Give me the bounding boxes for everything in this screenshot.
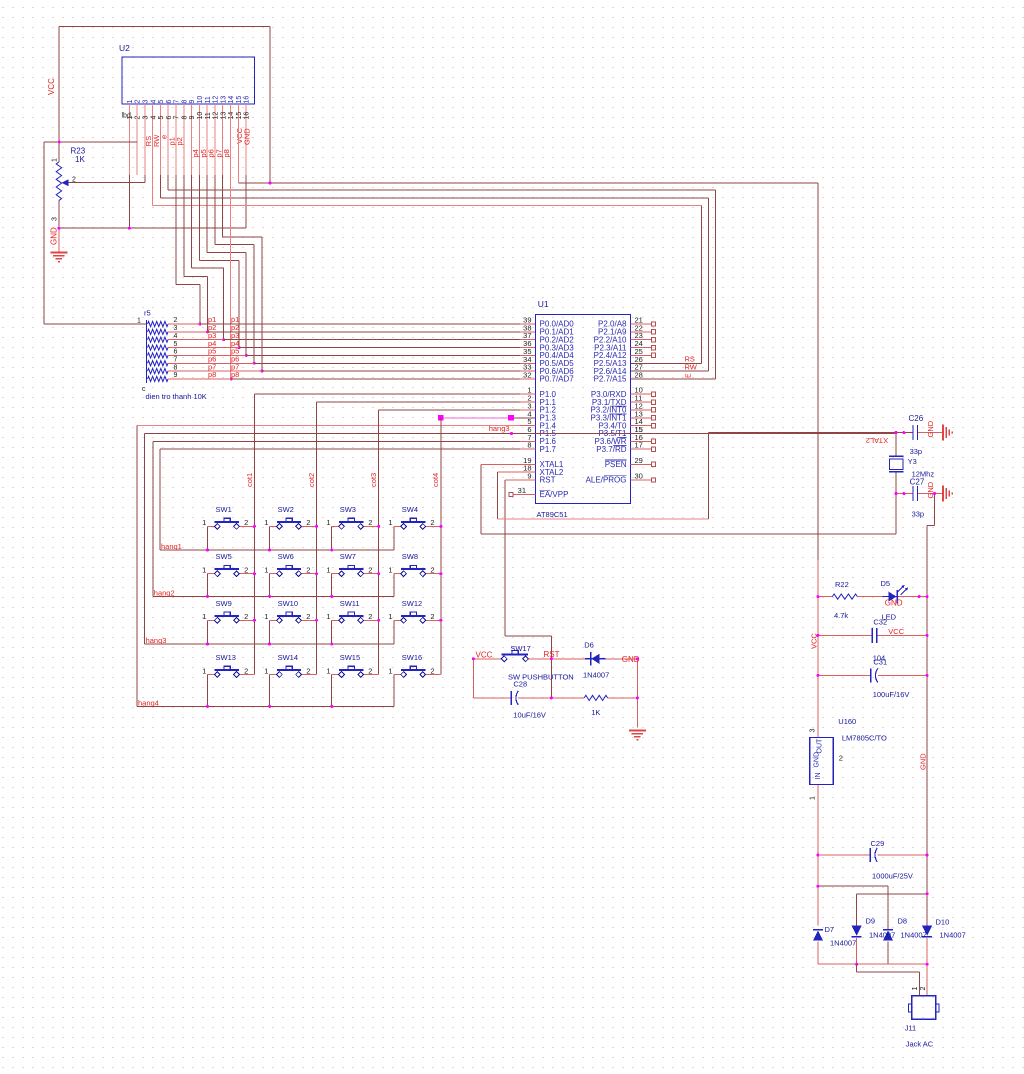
svg-text:2: 2 (368, 666, 372, 675)
wire rail U160 pin1 down to D7 (817, 784, 819, 925)
svg-text:E: E (686, 373, 693, 378)
r5 resistor element row 6 (148, 361, 169, 366)
wire r5 row 6 to U1 P0.5 (254, 362, 520, 364)
wire p7 vertical from U2 pin13 (222, 175, 224, 237)
wire SW16 pin1 drop (393, 675, 395, 707)
junction GND/1K row (636, 696, 639, 699)
wire D5 to GND rail (899, 596, 927, 598)
svg-text:2: 2 (135, 116, 142, 120)
resistor 1K (reset) (584, 695, 607, 700)
svg-text:r5: r5 (144, 309, 151, 318)
svg-text:2: 2 (430, 666, 434, 675)
wire RS vertical from U2 pin4 (152, 175, 154, 206)
wire hang2 row (153, 595, 394, 597)
wire SW15 pin1 drop (331, 675, 333, 707)
wire hang4 vertical (136, 426, 138, 707)
svg-text:SW7: SW7 (340, 552, 356, 561)
svg-text:6: 6 (174, 349, 178, 356)
svg-text:2: 2 (244, 566, 248, 575)
svg-text:P3.7/RD: P3.7/RD (596, 445, 626, 454)
wire GND jog (927, 525, 934, 527)
svg-text:GND: GND (885, 599, 903, 608)
junction p4 on r5 row (238, 346, 241, 349)
wire r5 row 3 to U1 P0.2 (224, 339, 520, 341)
junction VCC/C31 (816, 674, 819, 677)
wire RS into U1 (631, 362, 702, 364)
pushbutton SW17 (501, 656, 507, 662)
switch SW6 (264, 552, 316, 576)
wire p5 drop to r5 row (245, 253, 247, 356)
svg-text:lbd: lbd (122, 113, 131, 120)
svg-text:p8: p8 (208, 370, 216, 379)
svg-text:8: 8 (181, 116, 188, 120)
wire VCC left vertical (58, 27, 60, 163)
wire SW8 pin1 drop (393, 574, 395, 597)
junction cot4 row3 (439, 619, 442, 622)
svg-text:1: 1 (202, 666, 206, 675)
wire p4 step horizontal (199, 259, 239, 261)
svg-text:11: 11 (205, 112, 212, 119)
wire VCC top horizontal (59, 26, 270, 28)
wire XTAL2 vertical (497, 472, 499, 519)
U2 pin 12 stub and numbers (214, 104, 216, 175)
wire U1 P0.2 pin stub (520, 339, 536, 341)
svg-text:100uF/16V: 100uF/16V (873, 690, 910, 699)
junction crystal top 1 (895, 431, 898, 434)
svg-text:SW2: SW2 (278, 505, 294, 514)
wire P1.0 to cot1 (254, 393, 520, 395)
svg-text:R22: R22 (835, 580, 849, 589)
svg-text:33p: 33p (912, 510, 925, 519)
wire SW5 pin1 drop (207, 574, 209, 597)
wire XTAL1 stub (481, 463, 536, 465)
wire P1.3 segment to U1 (511, 417, 536, 419)
switch SW8 (388, 552, 440, 576)
svg-text:7: 7 (174, 116, 181, 120)
junction cot3 row1 (377, 525, 380, 528)
wire C28 to 1K (518, 697, 584, 699)
svg-text:SW6: SW6 (278, 552, 294, 561)
junction rail/C29 (816, 854, 819, 857)
wire VCC rail to U160 pin3 (817, 560, 819, 738)
svg-text:1: 1 (137, 318, 141, 325)
wire D7 bottom (817, 942, 819, 965)
switch SW16 (388, 653, 440, 677)
wire XTAL2 stub (498, 471, 536, 473)
diode D9 1N4007 (852, 926, 862, 936)
junction rail/D8 branch (816, 885, 819, 888)
connector J11 Jack AC (912, 996, 936, 1020)
svg-text:p2: p2 (175, 137, 184, 145)
wire SW6 pin1 drop (269, 574, 271, 597)
svg-text:SW16: SW16 (402, 653, 422, 662)
capacitor C28 10uF/16V (511, 691, 518, 705)
svg-text:P2.7/A15: P2.7/A15 (594, 375, 627, 384)
svg-text:2: 2 (368, 566, 372, 575)
wire jack pin1 vertical (919, 972, 921, 996)
wire RST stub (505, 479, 536, 481)
junction GND rail/D9 branch (926, 892, 929, 895)
wire r5 row 7 to U1 P0.6 (262, 370, 520, 372)
wire P1.2 to cot3 (379, 409, 520, 411)
svg-text:1N4007: 1N4007 (583, 670, 609, 679)
svg-text:33p: 33p (910, 447, 923, 456)
junction GND/C29 (926, 854, 929, 857)
svg-text:1K: 1K (75, 155, 85, 164)
wire D8 top vertical (887, 886, 889, 929)
junction cot4 row1 (439, 525, 442, 528)
wire SW14 pin1 drop (269, 675, 271, 707)
wire U2 pin16 vertical (245, 175, 247, 228)
svg-text:2: 2 (306, 612, 310, 621)
switch SW10 (264, 599, 316, 623)
wire branch to D8 top (818, 885, 888, 887)
junction p5 on r5 row (245, 354, 248, 357)
wire p1 vertical from U2 pin7 (175, 175, 177, 284)
svg-text:13: 13 (220, 112, 227, 120)
wire P1.3 to cot4 (selected) (441, 417, 511, 419)
svg-text:cot2: cot2 (307, 473, 316, 487)
svg-text:hang3: hang3 (489, 424, 510, 433)
svg-text:1: 1 (202, 518, 206, 527)
junction hang3 col1 (206, 643, 209, 646)
U2 pin 5 stub and numbers (159, 104, 161, 175)
junction cot3 row2 (377, 572, 380, 575)
switch SW4 (388, 505, 440, 529)
wire cot2 vertical (316, 402, 318, 674)
svg-text:11: 11 (205, 96, 212, 103)
svg-text:2: 2 (306, 518, 310, 527)
svg-text:hang4: hang4 (138, 699, 159, 708)
svg-text:1N4007: 1N4007 (830, 939, 856, 948)
capacitor C32 104 (872, 628, 877, 643)
svg-text:1: 1 (388, 566, 392, 575)
wire p7 step horizontal (223, 236, 262, 238)
wire P1.0 stub (520, 393, 536, 395)
svg-text:12: 12 (213, 112, 220, 120)
wire VCC to SW17 (473, 658, 504, 660)
wire P1.1 stub (520, 401, 536, 403)
wire SW9 pin1 drop (207, 620, 209, 644)
svg-text:D8: D8 (898, 917, 908, 926)
capacitor C27 33p (913, 486, 918, 501)
svg-text:15: 15 (635, 425, 643, 434)
U1 pin 23 unconnected stub (631, 339, 652, 341)
wire hang4 row (137, 705, 394, 707)
wire GND row (59, 227, 246, 229)
svg-text:p8: p8 (222, 149, 231, 157)
svg-text:4: 4 (174, 333, 178, 340)
svg-text:cot3: cot3 (369, 473, 378, 487)
crystal Y3 12Mhz (890, 459, 904, 470)
svg-text:2: 2 (920, 987, 927, 991)
r5 resistor element row 4 (148, 345, 169, 350)
svg-text:6: 6 (166, 100, 173, 104)
svg-text:P1.7: P1.7 (540, 445, 557, 454)
svg-text:16: 16 (244, 112, 251, 120)
wire VCC branch down to C28 (472, 659, 474, 698)
wire pin2 horizontal (44, 141, 137, 143)
wire U1 P0.4 pin stub (520, 354, 536, 356)
wire SW13 pin1 drop (207, 675, 209, 707)
r5 resistor element row 3 (148, 337, 169, 342)
svg-text:14: 14 (228, 112, 235, 120)
junction p2 on r5 row (206, 330, 209, 333)
junction GND reset top (636, 657, 639, 660)
svg-text:31: 31 (518, 486, 526, 495)
junction C27 branch (933, 492, 936, 495)
svg-text:SW10: SW10 (278, 599, 298, 608)
wire crystal top row (708, 432, 913, 434)
svg-text:8: 8 (181, 100, 188, 104)
junction RST (550, 657, 553, 660)
svg-text:8: 8 (174, 364, 178, 371)
svg-text:OUT: OUT (817, 738, 824, 754)
wire hang3 row (145, 643, 394, 645)
wire SW12 pin1 drop (393, 620, 395, 644)
wire P1.6 stub (520, 440, 536, 442)
wire r5 row 8 (red segment) (168, 378, 231, 380)
svg-text:D9: D9 (866, 917, 876, 926)
junction p8 on r5 row (230, 377, 233, 380)
wire VCC to C32 (818, 634, 872, 636)
wire RS vertical to U1 pin26 (701, 206, 703, 364)
svg-text:PSEN: PSEN (605, 460, 627, 469)
U1 pin 16 unconnected stub (631, 440, 652, 442)
junction hang4 col1 (206, 705, 209, 708)
svg-text:3: 3 (810, 729, 817, 733)
wire r5 row 3 (red segment) (168, 339, 224, 341)
svg-text:9: 9 (527, 472, 531, 481)
wire P1.7 stub (520, 448, 536, 450)
svg-text:2: 2 (430, 518, 434, 527)
U1 pin 21 unconnected stub (631, 323, 652, 325)
D5 LED arrows (897, 585, 908, 595)
wire U1 P0.6 pin stub (520, 370, 536, 372)
svg-text:4.7k: 4.7k (834, 611, 848, 620)
wire AC bottom row (818, 963, 927, 965)
U1 pin 14 unconnected stub (631, 425, 652, 427)
svg-text:SW12: SW12 (402, 599, 422, 608)
wire C27 to ground (918, 493, 944, 495)
switch SW13 (202, 653, 254, 677)
U2 pin 11 stub and numbers (206, 104, 208, 175)
wire RW vertical to U1 pin27 (708, 198, 710, 371)
wire E vertical to U1 pin28 (715, 190, 717, 379)
svg-text:1: 1 (326, 612, 330, 621)
svg-text:VCC: VCC (888, 627, 904, 636)
junction AC row/jack pin2 (926, 963, 929, 966)
svg-text:1: 1 (52, 158, 59, 162)
wire U1 P0.0 pin stub (520, 323, 536, 325)
svg-text:9: 9 (174, 372, 178, 379)
ground symbol (reset) (629, 731, 646, 740)
capacitor C29 1000uF/25V (870, 848, 877, 862)
wire U2 pin15 VCC vertical (237, 113, 239, 183)
ground symbol (C26) (943, 425, 952, 441)
R23 wiper arrow (62, 179, 69, 186)
junction p3 on r5 row (222, 338, 225, 341)
wire p4 drop to r5 row (238, 260, 240, 347)
wire P1.1 to cot2 (317, 401, 521, 403)
wire P1.4 stub (520, 425, 536, 427)
svg-text:3: 3 (142, 100, 149, 104)
svg-text:Jack AC: Jack AC (906, 1040, 934, 1049)
r5 common bar (146, 320, 148, 383)
svg-text:D5: D5 (881, 579, 891, 588)
wire branch to D9 top (857, 893, 928, 895)
wire VCC to C31 (818, 674, 871, 676)
svg-text:VCC: VCC (476, 651, 493, 660)
U2 pin 16 stub and numbers (245, 104, 247, 175)
svg-text:cot1: cot1 (245, 473, 254, 487)
diode D8 1N4007 (883, 929, 893, 931)
svg-text:1: 1 (127, 100, 134, 104)
U1 pin 30 unconnected stub (631, 479, 652, 481)
wire P1.6 to hang2 corner (153, 440, 520, 442)
svg-text:2: 2 (306, 566, 310, 575)
wire VCC rail upper (817, 183, 819, 560)
wire SW1 pin1 drop (207, 526, 209, 550)
junction VCC reset (472, 657, 475, 660)
svg-text:30: 30 (635, 472, 643, 481)
wire C32 to GND rail (877, 634, 927, 636)
wire p6 drop to r5 row (253, 245, 255, 364)
svg-text:GND: GND (926, 420, 935, 437)
wire RS horizontal (153, 205, 702, 207)
ground symbol (C27) (943, 486, 952, 502)
wire C28 left (473, 697, 511, 699)
junction GND/C32 (926, 634, 929, 637)
wire U2 pin2 vertical (136, 113, 138, 142)
wire D9 bottom (856, 938, 858, 964)
wire C31 to GND rail (878, 674, 927, 676)
svg-text:5: 5 (158, 116, 165, 120)
wire XTAL2 horizontal (498, 518, 709, 520)
wire r5 row 5 to U1 P0.4 (246, 354, 520, 356)
svg-text:GND: GND (50, 227, 59, 245)
junction cot1 row3 (253, 619, 256, 622)
svg-text:LM7805C/TO: LM7805C/TO (842, 733, 887, 742)
svg-text:15: 15 (236, 112, 243, 120)
svg-text:SW9: SW9 (216, 599, 232, 608)
wire p2 step horizontal (184, 275, 208, 277)
wire 1K to GND (608, 697, 638, 699)
svg-text:1: 1 (388, 518, 392, 527)
junction hang2 col3 (330, 595, 333, 598)
svg-text:SW1: SW1 (216, 505, 232, 514)
capacitor C31 100uF/16V (871, 668, 878, 682)
wire GND rail (926, 526, 928, 926)
wire cot1 vertical (253, 394, 255, 674)
switch SW7 (326, 552, 378, 576)
svg-text:3: 3 (174, 325, 178, 332)
wire U1 P0.3 pin stub (520, 347, 536, 349)
U1 pin 25 unconnected stub (631, 354, 652, 356)
svg-text:5: 5 (174, 341, 178, 348)
wire hang2 vertical (152, 441, 154, 596)
svg-text:1: 1 (388, 612, 392, 621)
wire VCC right vertical (269, 27, 271, 184)
wire U2 pin1 vertical (128, 175, 130, 228)
junction cot2 row2 (315, 572, 318, 575)
wire cot4 vertical (440, 418, 442, 675)
connector U2 (122, 57, 255, 104)
wire p3 drop to r5 row (223, 268, 225, 340)
svg-text:9: 9 (189, 116, 196, 120)
wire U1 P0.7 pin stub (520, 378, 536, 380)
wire SW17 to D6 (528, 658, 589, 660)
wire left long vertical to r5 pin1 (43, 142, 45, 324)
junction VCC/pin2 (58, 141, 61, 144)
svg-text:2: 2 (174, 317, 178, 324)
svg-text:16: 16 (244, 96, 251, 104)
svg-text:2: 2 (244, 518, 248, 527)
svg-text:C32: C32 (873, 618, 887, 627)
wire E horizontal (168, 189, 715, 191)
svg-text:1: 1 (326, 666, 330, 675)
svg-text:1K: 1K (591, 708, 600, 717)
junction hang2 col1 (206, 595, 209, 598)
svg-text:Y3: Y3 (908, 457, 917, 466)
junction cot1 row2 (253, 572, 256, 575)
svg-text:7: 7 (174, 100, 181, 104)
wire P1.5/hang3/XTAL2 long horizontal (145, 432, 896, 434)
junction hang3 col3 (330, 643, 333, 646)
wire r5 row 2 to U1 P0.1 (208, 331, 521, 333)
svg-text:SW15: SW15 (340, 653, 360, 662)
wire D9 top vertical (856, 894, 858, 926)
diode D6 1N4007 (585, 658, 606, 660)
wire cot3 vertical (378, 410, 380, 675)
svg-text:1: 1 (388, 666, 392, 675)
U2 pin 13 stub and numbers (222, 104, 224, 175)
U2 pin 10 stub and numbers (198, 104, 200, 175)
svg-text:J11: J11 (905, 1024, 917, 1033)
svg-text:SW5: SW5 (216, 552, 232, 561)
wire U2 pin3 vertical (144, 175, 146, 183)
selection handle P1.3 left (438, 415, 444, 421)
svg-text:1: 1 (264, 518, 268, 527)
junction GND/U2 pin1 (128, 227, 131, 230)
svg-text:2: 2 (368, 612, 372, 621)
wire RW vertical from U2 pin5 (159, 175, 161, 198)
svg-text:2: 2 (72, 177, 76, 184)
junction cot1 row1 (253, 525, 256, 528)
wire R22 to D5 (857, 596, 887, 598)
r5 resistor element row 2 (148, 329, 169, 334)
junction GND/pot (57, 227, 60, 230)
U2 pin 7 stub and numbers (175, 104, 177, 175)
wire r5 row 4 to U1 P0.3 (239, 347, 520, 349)
svg-text:12: 12 (213, 96, 220, 104)
microcontroller U1 AT89C51 (536, 315, 631, 504)
svg-text:2: 2 (135, 100, 142, 104)
svg-text:C28: C28 (513, 680, 527, 689)
wire r5 row 1 (red segment) (168, 323, 200, 325)
svg-text:ALE/PROG: ALE/PROG (586, 476, 627, 485)
wire p2 drop to r5 row (207, 276, 209, 332)
svg-text:1: 1 (264, 612, 268, 621)
wire p3 vertical from U2 pin9 (191, 175, 193, 268)
junction VCC/R22 (816, 595, 819, 598)
U1 pin 10 unconnected stub (631, 393, 652, 395)
wire VCC to R22 (818, 596, 832, 598)
U1 pin 13 unconnected stub (631, 417, 652, 419)
junction GND/C31 (926, 674, 929, 677)
svg-text:SW14: SW14 (278, 653, 298, 662)
svg-text:hang3: hang3 (146, 636, 167, 645)
